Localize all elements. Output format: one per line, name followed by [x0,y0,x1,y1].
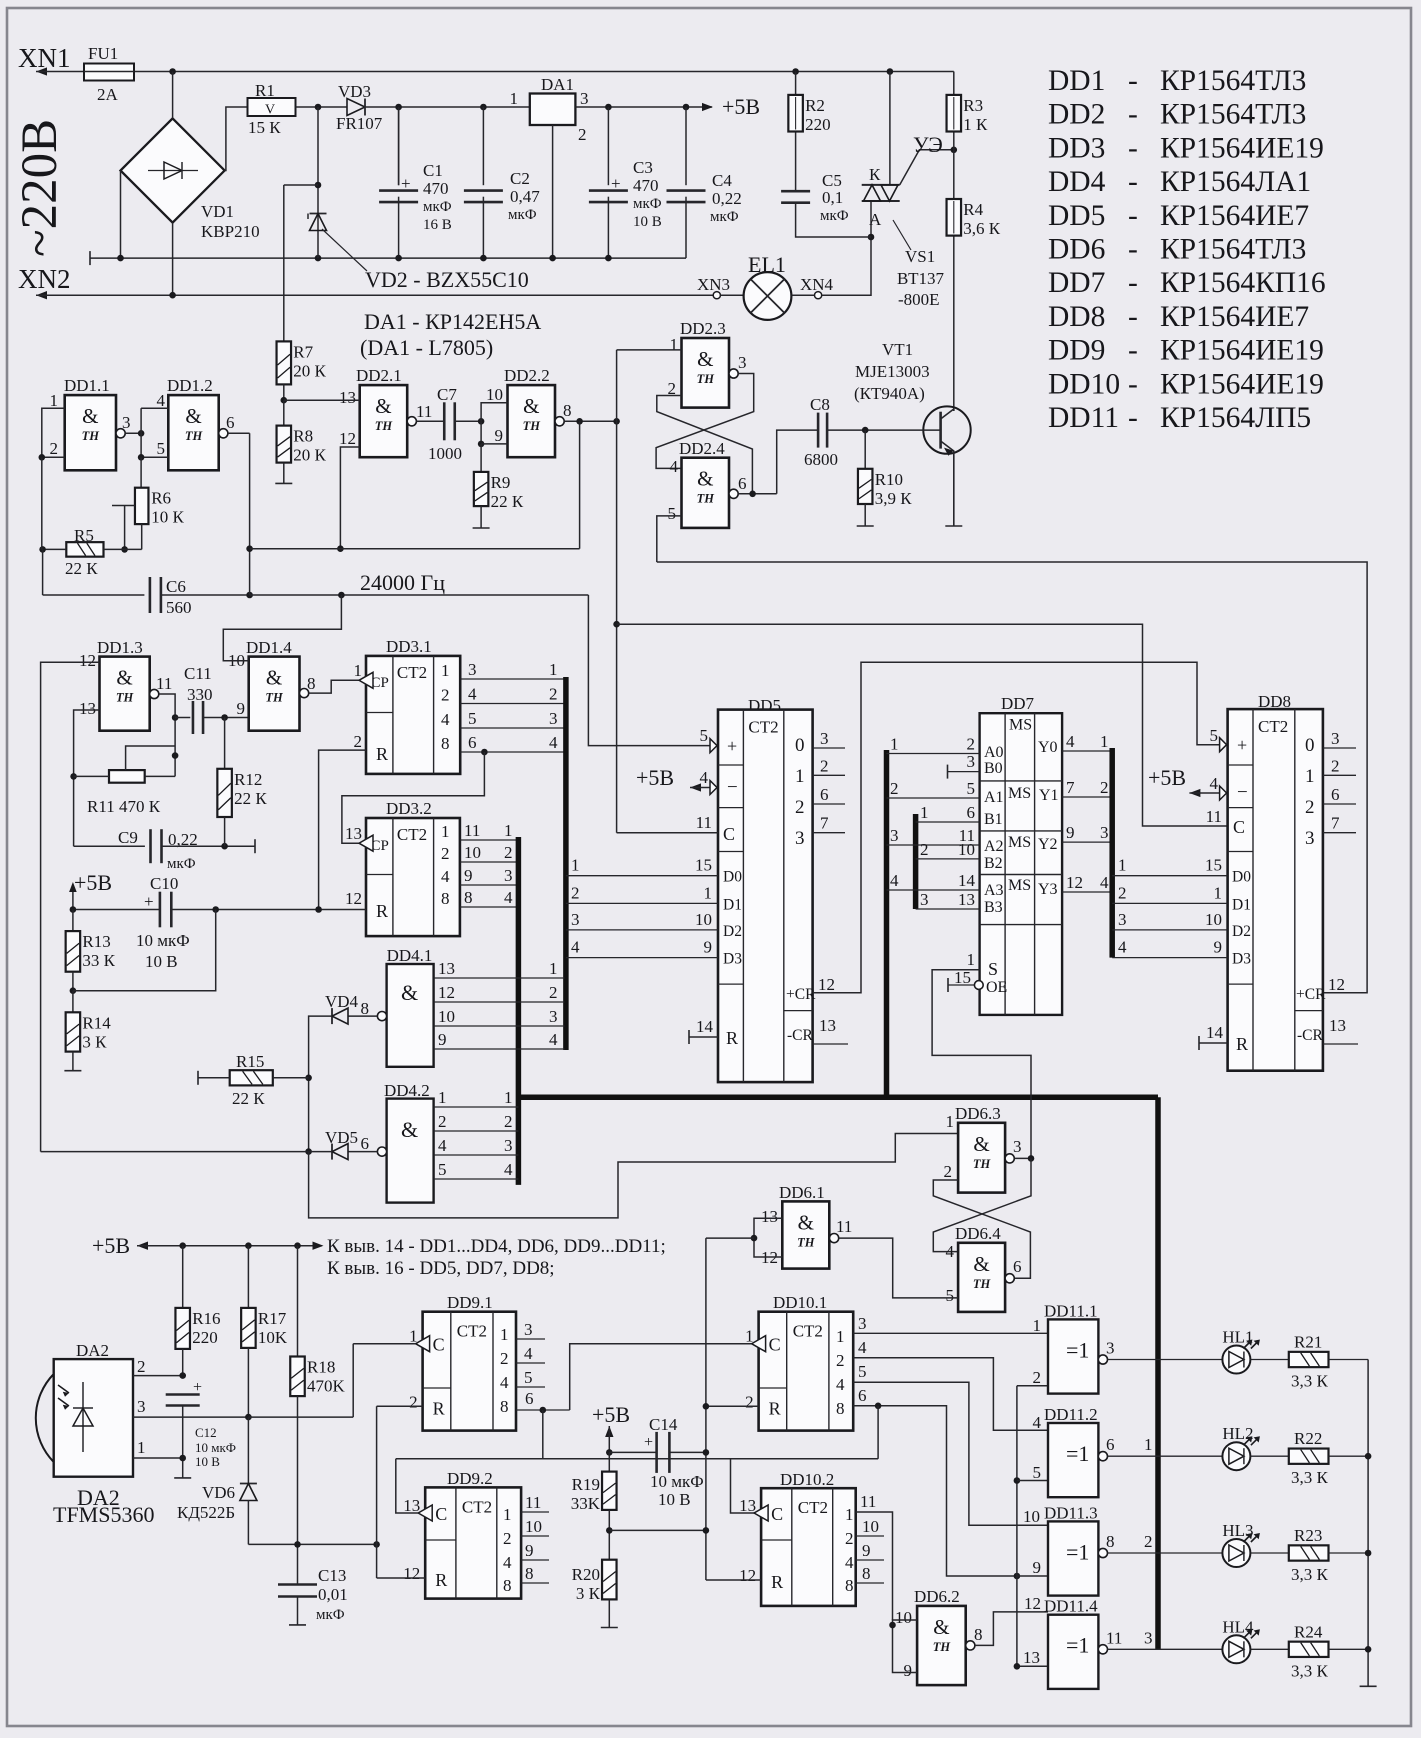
svg-text:DD4.2: DD4.2 [384,1081,430,1100]
svg-text:0: 0 [795,735,805,756]
wire VD5 node from DD1.3 [41,1151,309,1153]
svg-text:1: 1 [441,661,450,680]
wire DD10.2 output stub [856,1582,884,1584]
svg-text:15 К: 15 К [248,118,281,137]
svg-text:+5В: +5В [1148,765,1186,790]
svg-text:DD6.3: DD6.3 [955,1104,1001,1123]
svg-text:СТ2: СТ2 [397,825,427,844]
wire DD9.1 output stub [516,1362,545,1364]
svg-text:-: - [1128,301,1138,333]
svg-text:КР1564ИЕ7: КР1564ИЕ7 [1160,200,1309,232]
svg-text:220: 220 [192,1328,218,1347]
svg-text:DD10: DD10 [1048,368,1120,400]
svg-text:2: 2 [549,685,558,704]
wire DD10.1 out3 to DD11.1 [853,1332,1048,1334]
svg-text:&: & [798,1210,814,1234]
svg-text:R: R [376,744,388,764]
svg-text:DD3.2: DD3.2 [386,799,432,818]
svg-text:3: 3 [1144,1628,1153,1647]
wire DD9.1 C input [353,1343,415,1345]
svg-text:=1: =1 [1066,1441,1089,1466]
svg-text:4: 4 [441,710,450,729]
bridge rectifier VD1 [121,118,225,222]
svg-text:2: 2 [795,797,805,818]
svg-text:1: 1 [571,856,580,875]
svg-text:12: 12 [1328,975,1345,994]
wire DD5 output stub [813,747,845,749]
svg-text:СТ2: СТ2 [748,718,778,737]
svg-text:2: 2 [503,1529,512,1548]
svg-text:R19: R19 [572,1475,600,1494]
svg-text:9: 9 [438,1030,447,1049]
svg-text:1: 1 [1033,1316,1042,1335]
svg-text:13: 13 [79,699,96,718]
svg-text:9: 9 [904,1661,913,1680]
svg-text:ТН: ТН [82,429,101,443]
capacitor C13 [278,1583,317,1586]
svg-text:DD2.4: DD2.4 [679,439,725,458]
svg-text:470K: 470K [307,1377,346,1396]
svg-text:24000 Гц: 24000 Гц [360,570,445,595]
wire +5V out [575,106,712,108]
svg-text:9: 9 [495,426,504,445]
svg-text:3: 3 [1331,729,1340,748]
svg-text:S: S [988,959,998,979]
svg-text:8: 8 [862,1564,871,1583]
svg-text:&: & [697,467,713,491]
svg-text:20 К: 20 К [293,361,326,380]
svg-text:2: 2 [1305,797,1315,818]
svg-text:1: 1 [795,766,805,787]
wire bridge to rails [172,72,174,119]
svg-text:10: 10 [1205,910,1222,929]
svg-text:-: - [1128,402,1138,434]
svg-text:&: & [401,1117,418,1142]
wire DD5 output stub [813,832,845,834]
svg-text:&: & [82,404,98,428]
svg-text:=1: =1 [1066,1633,1089,1658]
wire DD1.1 out to DD1.2 [125,432,141,434]
svg-text:DD10.1: DD10.1 [773,1293,827,1312]
svg-text:ВТ137: ВТ137 [897,269,944,288]
svg-text:8: 8 [525,1564,534,1583]
wire DD11.4 out to HL4 [1108,1648,1223,1650]
wire DD7 Y output [1062,891,1112,893]
svg-text:15: 15 [695,856,712,875]
svg-text:9: 9 [704,938,713,957]
svg-text:D1: D1 [1232,896,1251,913]
svg-text:1: 1 [670,335,679,354]
svg-text:8: 8 [974,1625,983,1644]
wire DD10.1 out6 [853,1406,1017,1576]
svg-text:КР1564ИЕ19: КР1564ИЕ19 [1160,132,1324,164]
resistor R20 [602,1560,617,1600]
resistor R19 [602,1472,617,1510]
svg-text:1 К: 1 К [963,115,988,134]
svg-text:&: & [266,666,282,690]
svg-text:11: 11 [464,821,480,840]
svg-text:22 К: 22 К [234,789,267,808]
svg-text:DD6.2: DD6.2 [914,1587,960,1606]
capacitor C2 [482,107,484,185]
bus 2 (DD3.1 outs to DD5) [563,677,569,1050]
svg-text:R13: R13 [82,932,110,951]
svg-text:C: C [435,1504,447,1524]
svg-text:R: R [433,1398,445,1418]
svg-text:1: 1 [704,883,713,902]
svg-text:5: 5 [700,726,709,745]
svg-text:DD11.2: DD11.2 [1044,1405,1098,1424]
wire DD4.2 input [434,1106,519,1108]
svg-text:6: 6 [858,1386,867,1405]
svg-text:1: 1 [745,1327,754,1346]
svg-text:C14: C14 [649,1415,678,1434]
resistor R13 [66,931,81,972]
wire DD9.2 output stub [521,1511,549,1513]
svg-text:&: & [401,980,418,1005]
svg-text:&: & [375,394,391,418]
svg-text:A3: A3 [984,882,1004,899]
wire DD6.3 out node [1014,1157,1031,1159]
svg-text:6: 6 [1013,1257,1022,1276]
svg-text:2: 2 [1033,1368,1042,1387]
svg-text:8: 8 [441,734,450,753]
svg-text:10 В: 10 В [633,214,662,230]
svg-text:8: 8 [503,1576,512,1595]
svg-text:560: 560 [166,598,192,617]
svg-text:VD3: VD3 [338,82,371,101]
svg-text:1: 1 [946,1112,955,1131]
svg-text:12: 12 [1066,873,1083,892]
svg-text:13: 13 [403,1496,420,1515]
svg-text:&: & [116,666,132,690]
svg-text:4: 4 [524,1344,533,1363]
svg-text:13: 13 [438,959,455,978]
svg-text:4: 4 [503,1553,512,1572]
svg-text:DD1.1: DD1.1 [64,376,110,395]
wire DD5 D input [566,902,718,904]
wire DD11.2 out to HL2 [1108,1455,1223,1457]
svg-text:3: 3 [549,709,558,728]
svg-text:DD9.2: DD9.2 [447,1469,493,1488]
resistor R8 [277,426,292,463]
svg-text:Y1: Y1 [1039,787,1059,804]
wire DD10.1 out4 to DD11.2 [853,1358,1048,1431]
svg-text:&: & [697,347,713,371]
svg-text:8: 8 [845,1576,854,1595]
wire DD3.1 out6 to DD3.2 CP [342,752,485,843]
svg-text:MJE13003: MJE13003 [855,362,930,381]
wire DD8 output stub [1323,832,1356,834]
svg-text:10 В: 10 В [195,1454,220,1469]
svg-text:13: 13 [345,824,362,843]
gate wire УЭ [900,150,954,185]
svg-text:B0: B0 [984,760,1003,777]
wire DD8 D input [1112,957,1227,959]
svg-text:4: 4 [700,768,709,787]
svg-text:6: 6 [738,474,747,493]
wire DD4.1 input [434,1001,565,1003]
svg-text:&: & [933,1615,949,1639]
svg-text:3: 3 [858,1314,867,1333]
wire pin3 to DD9.1 C [352,1344,354,1417]
svg-text:мкФ: мкФ [820,208,849,224]
svg-text:+CR: +CR [1296,986,1326,1003]
svg-text:мкФ: мкФ [316,1607,345,1623]
svg-text:10: 10 [438,1007,455,1026]
wire DD1.3 out [159,694,175,776]
svg-text:3,3 К: 3,3 К [1291,1661,1329,1680]
svg-text:MS: MS [1008,834,1031,851]
svg-text:2: 2 [438,1112,447,1131]
wire DD2.3 pin1 [617,349,682,351]
svg-text:5: 5 [157,439,166,458]
svg-text:Y3: Y3 [1038,881,1058,898]
svg-text:DD2: DD2 [1048,99,1105,131]
resistor R14 [72,991,74,1013]
wire RS cross coupling DD6.3/DD6.4 [933,1180,1030,1278]
svg-text:11: 11 [860,1492,876,1511]
resistor R7 [277,341,292,384]
svg-text:9: 9 [1214,938,1223,957]
wire DD5 D input [566,929,718,931]
resistor R3 [947,95,962,132]
wire DD11.1 out to HL1 [1108,1359,1223,1361]
svg-text:2: 2 [745,1392,754,1411]
svg-text:4: 4 [438,1136,447,1155]
svg-text:+5В: +5В [92,1233,130,1258]
svg-text:13: 13 [958,890,975,909]
svg-text:3: 3 [820,729,829,748]
svg-text:R: R [1236,1034,1248,1054]
svg-text:C3: C3 [633,158,653,177]
svg-text:4: 4 [157,391,166,410]
svg-text:КР1564ТЛ3: КР1564ТЛ3 [1160,65,1306,97]
svg-text:DA1 - КР142ЕН5А: DA1 - КР142ЕН5А [364,309,541,334]
svg-text:DD3: DD3 [1048,132,1105,164]
resistor R15 [230,1070,273,1085]
svg-text:3: 3 [795,828,805,849]
svg-text:8: 8 [307,674,316,693]
svg-text:-: - [1128,368,1138,400]
resistor R9 [474,472,489,506]
capacitor C6 [149,577,152,613]
svg-text:6: 6 [1331,785,1340,804]
svg-text:13: 13 [739,1496,756,1515]
svg-text:DD2.2: DD2.2 [504,366,550,385]
svg-text:C: C [769,1335,781,1355]
wire DD4.2 input [434,1154,519,1156]
wire DD7 Y output [1062,750,1112,752]
svg-text:4: 4 [468,685,477,704]
svg-text:+5В: +5В [636,765,674,790]
svg-text:4: 4 [549,1030,558,1049]
svg-text:КД522Б: КД522Б [177,1503,235,1522]
bus 5 (DD7 Y to DD8 D) [1109,748,1115,958]
svg-text:+: + [644,1434,653,1451]
wire VD3 to DA1 [365,106,530,108]
svg-text:VT1: VT1 [882,340,913,359]
svg-text:9: 9 [1066,823,1075,842]
svg-text:2: 2 [137,1357,146,1376]
wire bottom rail [89,251,91,265]
svg-text:2: 2 [500,1349,509,1368]
svg-text:3: 3 [1118,910,1127,929]
svg-text:3: 3 [468,660,477,679]
svg-text:11: 11 [696,813,712,832]
svg-text:мкФ: мкФ [423,199,452,215]
svg-text:470: 470 [633,176,659,195]
svg-text:11: 11 [525,1493,541,1512]
svg-text:R12: R12 [234,770,262,789]
wire DD2.1 pin12 feedback [340,447,359,549]
svg-text:R17: R17 [258,1309,287,1328]
svg-text:C7: C7 [437,385,457,404]
svg-text:2: 2 [441,686,450,705]
svg-text:10 К: 10 К [151,508,184,527]
svg-text:1: 1 [354,661,363,680]
svg-text:10K: 10K [258,1328,288,1347]
svg-text:DA1: DA1 [541,75,574,94]
svg-text:13: 13 [819,1016,836,1035]
wire DD1.3 pin12 long feedback [41,662,100,1151]
wire DD10.1 out5 to DD11.3 [853,1382,1048,1525]
svg-text:1: 1 [504,821,513,840]
svg-text:1: 1 [836,1327,845,1346]
svg-text:1: 1 [50,391,59,410]
svg-text:8: 8 [563,401,572,420]
svg-text:DD9: DD9 [1048,335,1105,367]
wire DD4.1 input [434,1048,565,1050]
wire R6 wiper tap [112,505,135,507]
svg-text:R: R [435,1570,447,1590]
svg-text:5: 5 [1210,726,1219,745]
resistor R10 [858,469,873,504]
wire DD9.2 output stub [521,1559,549,1561]
svg-text:ТН: ТН [933,1640,952,1654]
svg-text:10: 10 [958,840,975,859]
svg-text:2: 2 [944,1162,953,1181]
wire DD10.2 output stub [856,1559,884,1561]
svg-text:6: 6 [468,733,477,752]
svg-text:C9: C9 [118,828,138,847]
svg-text:11: 11 [836,1217,852,1236]
svg-text:11: 11 [1206,807,1222,826]
svg-text:2: 2 [504,843,513,862]
wire DD10.2 output stub [856,1535,884,1537]
wire net DD2.4pin5 to DD8 +CR [657,562,1367,993]
svg-text:1: 1 [549,959,558,978]
svg-text:12: 12 [739,1566,756,1585]
capacitor C4 [685,107,687,185]
svg-text:2: 2 [967,735,976,754]
svg-text:10: 10 [525,1517,542,1536]
wire long vertical to DD5 C [616,350,618,833]
svg-text:VD5: VD5 [325,1128,358,1147]
svg-text:4: 4 [441,867,450,886]
svg-text:+: + [193,1379,202,1396]
wire DD2.4 pin5 [657,516,682,562]
svg-text:5: 5 [967,779,976,798]
resistor R18 [297,1246,299,1357]
svg-text:1: 1 [441,822,450,841]
wire DD5 R pin14 [688,1030,690,1044]
svg-text:16 В: 16 В [423,217,452,233]
svg-text:2: 2 [845,1529,854,1548]
svg-text:C8: C8 [810,395,830,414]
svg-text:2: 2 [920,840,929,859]
svg-text:-: - [1128,65,1138,97]
svg-text:DD8: DD8 [1048,301,1105,333]
svg-text:20 К: 20 К [293,446,326,465]
bus 3 (to DD7 A) [884,750,890,1097]
svg-text:5: 5 [1033,1463,1042,1482]
svg-text:8: 8 [500,1397,509,1416]
svg-text:4: 4 [571,938,580,957]
svg-text:12: 12 [339,429,356,448]
svg-text:8: 8 [361,999,370,1018]
svg-text:3,3 К: 3,3 К [1291,1372,1329,1391]
svg-text:+: + [144,892,154,911]
svg-text:DD1.3: DD1.3 [97,638,143,657]
svg-text:~220В: ~220В [12,119,68,257]
wire LED common return [1367,1360,1369,1687]
svg-text:6: 6 [226,413,235,432]
svg-text:6800: 6800 [804,450,838,469]
svg-text:11: 11 [1106,1628,1122,1647]
svg-text:VS1: VS1 [905,247,935,266]
wire reset net right column [705,1238,707,1580]
svg-text:9: 9 [525,1541,534,1560]
wire DD8 output stub [1323,774,1356,776]
resistor R11 [109,770,145,783]
svg-text:DD11.4: DD11.4 [1044,1597,1098,1616]
svg-text:К выв. 16 - DD5, DD7, DD8;: К выв. 16 - DD5, DD7, DD8; [327,1258,555,1279]
svg-text:D0: D0 [1232,869,1251,886]
resistor R12 [217,769,232,817]
wire C-line to DD8 C [617,624,1228,826]
svg-text:-: - [1128,335,1138,367]
resistor R18 [290,1357,305,1397]
svg-text:4: 4 [670,457,679,476]
svg-text:8: 8 [1106,1532,1115,1551]
svg-text:R: R [376,901,388,921]
svg-text:C10: C10 [150,874,178,893]
svg-text:1: 1 [438,1088,447,1107]
svg-text:C: C [1233,817,1245,837]
svg-text:11: 11 [156,674,172,693]
svg-text:33 К: 33 К [82,951,115,970]
svg-text:R23: R23 [1294,1526,1322,1545]
wire DD5 output stub [813,803,845,805]
resistor R19 [608,1452,610,1471]
wire DD5 D input [566,957,718,959]
fuse FU1 [84,64,134,81]
wire DD2.2 out [564,420,616,422]
svg-text:2: 2 [441,844,450,863]
svg-text:7: 7 [820,814,829,833]
svg-text:4: 4 [946,1242,955,1261]
svg-text:Y0: Y0 [1038,739,1058,756]
svg-text:-800Е: -800Е [898,290,940,309]
svg-text:DD9.1: DD9.1 [447,1293,493,1312]
wire DD9.1 out6 [516,1409,570,1411]
svg-text:−: − [1237,782,1248,803]
wire DD8 output stub [1323,747,1356,749]
svg-text:КР1564ЛП5: КР1564ЛП5 [1160,402,1311,434]
svg-text:DD11.1: DD11.1 [1044,1301,1098,1320]
svg-text:−: − [727,777,738,798]
